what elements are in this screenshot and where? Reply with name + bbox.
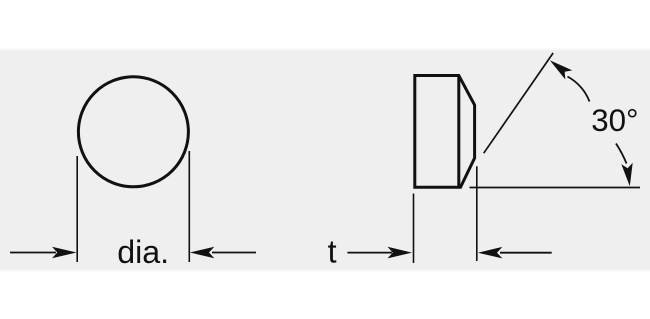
side view: beveled disc outline [415, 76, 475, 188]
angle arc arrow lower tail [616, 144, 627, 164]
front view: circle (disc face) [78, 77, 188, 187]
angle arc arrow lower head [621, 163, 632, 187]
angle arc arrow upper tail [568, 77, 590, 102]
svg-text:t: t [328, 234, 337, 270]
dia. dimension arrowhead right [190, 247, 215, 258]
svg-text:dia.: dia. [117, 234, 169, 270]
svg-text:30°: 30° [591, 103, 638, 138]
t dimension arrowhead right [478, 247, 503, 259]
dia. dimension line left tail [10, 252, 56, 254]
side view: face/bevel separation line [457, 76, 460, 188]
extension line right of t [476, 166, 478, 261]
extension line left of dia. [76, 156, 78, 262]
horizontal baseline [470, 187, 641, 189]
drawing background band [0, 48, 650, 51]
extension line left of t [413, 194, 415, 264]
dia. dimension arrowhead left [52, 247, 77, 258]
t dimension line right tail [500, 252, 552, 254]
dia. dimension line right tail [212, 252, 256, 254]
t dimension line left tail [347, 252, 392, 254]
angle arc arrow upper head [550, 60, 573, 79]
t dimension arrowhead left [388, 247, 413, 259]
extension line right of dia. [188, 151, 190, 262]
bevel angle construction line [484, 53, 553, 153]
